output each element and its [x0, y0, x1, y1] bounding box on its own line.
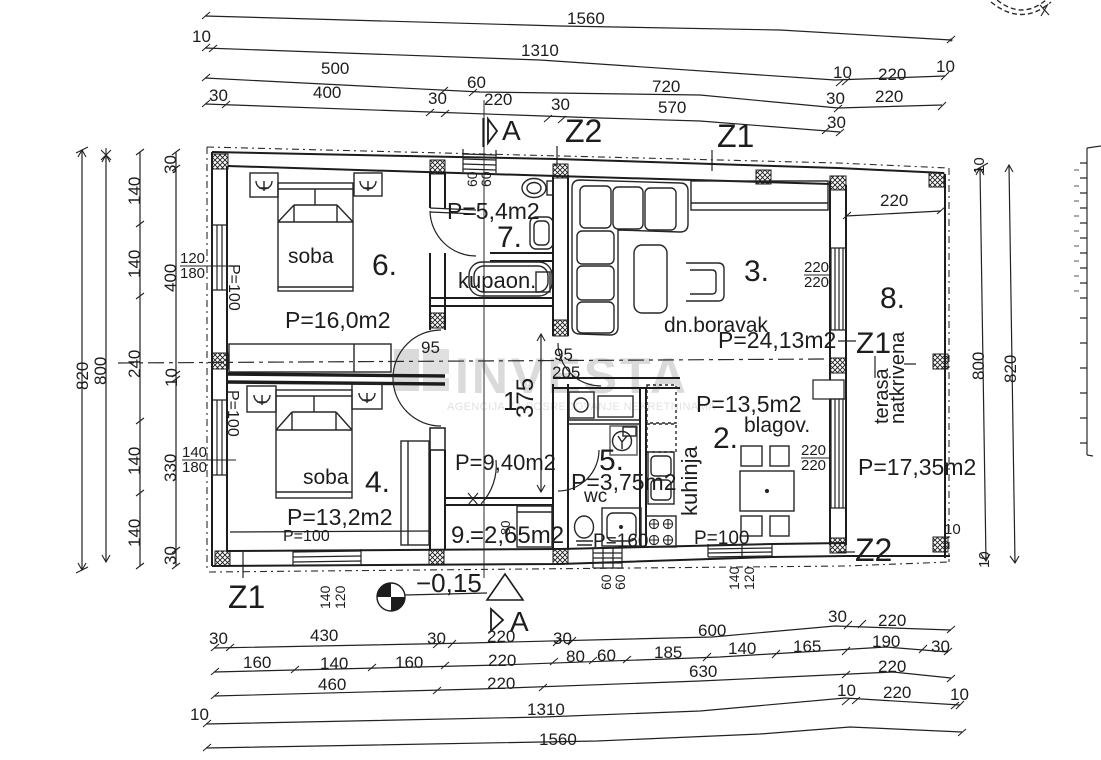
- hatch column right wall at window: [830, 358, 846, 373]
- svg-text:185: 185: [654, 643, 682, 662]
- svg-text:220: 220: [880, 191, 908, 210]
- svg-text:820: 820: [73, 362, 92, 390]
- svg-text:30: 30: [931, 637, 950, 656]
- svg-text:630: 630: [689, 662, 717, 681]
- door jamb block: [430, 428, 445, 450]
- svg-text:30: 30: [161, 546, 180, 565]
- kitchen counter mid: [647, 424, 676, 452]
- outer wall bottom: [212, 556, 846, 566]
- left dimension line 820: [73, 147, 92, 573]
- svg-text:460: 460: [318, 675, 346, 694]
- soba4 window sill line: [230, 531, 430, 532]
- soba6 nightstand left: [250, 173, 278, 197]
- outer wall left: [211, 152, 213, 566]
- marker Z1 right (terrace): [838, 327, 916, 378]
- wc toilet: [575, 516, 594, 545]
- hatch column hall wall mid: [430, 313, 445, 328]
- top dimension chain row 4 (30 400 30 220 30 570 30): [202, 83, 846, 136]
- svg-text:205: 205: [552, 363, 580, 382]
- svg-text:30: 30: [427, 629, 446, 648]
- left dimension line 800: [91, 148, 111, 562]
- entry steps: [463, 149, 496, 173]
- svg-text:soba: soba: [303, 466, 349, 489]
- svg-text:A: A: [502, 115, 521, 146]
- svg-text:P=17,35m2: P=17,35m2: [858, 454, 976, 480]
- svg-text:P=9,40m2: P=9,40m2: [455, 450, 556, 475]
- svg-text:600: 600: [698, 621, 726, 640]
- window bottom wall room9 (60/60): [593, 548, 622, 568]
- svg-text:220: 220: [804, 274, 829, 291]
- window left wall upper (120/180): [212, 225, 227, 290]
- svg-text:30: 30: [553, 629, 572, 648]
- svg-text:240: 240: [125, 350, 144, 378]
- svg-text:400: 400: [161, 264, 180, 292]
- svg-text:140: 140: [726, 566, 742, 590]
- wc boiler: [610, 426, 637, 455]
- soba4 bed: [276, 390, 352, 498]
- door arc soba6/soba4 (semicircle): [393, 330, 441, 426]
- svg-text:500: 500: [321, 59, 349, 78]
- svg-text:570: 570: [658, 98, 686, 117]
- svg-text:blagov.: blagov.: [744, 414, 810, 437]
- kitchen fridge: [647, 385, 676, 423]
- soba6 bed: [278, 183, 353, 291]
- svg-text:P=100: P=100: [224, 390, 241, 437]
- svg-text:1310: 1310: [521, 41, 559, 60]
- svg-text:220: 220: [878, 657, 906, 676]
- svg-text:160: 160: [243, 653, 271, 672]
- hatch column living wall mid: [553, 320, 568, 336]
- hatch column top wall at hall: [430, 160, 445, 174]
- svg-text:P=100: P=100: [225, 264, 242, 311]
- svg-text:180: 180: [180, 265, 205, 282]
- svg-text:P=24,13m2: P=24,13m2: [718, 327, 836, 353]
- svg-text:kupaon.: kupaon.: [458, 268, 536, 293]
- hatch column top-left corner: [212, 154, 228, 169]
- svg-text:wc: wc: [583, 486, 607, 507]
- svg-text:220: 220: [883, 683, 911, 702]
- svg-text:Z2: Z2: [855, 532, 892, 568]
- hatch column terrace top right: [929, 173, 944, 187]
- soba4 nightstand left: [247, 386, 276, 412]
- benchmark symbol: [377, 583, 487, 611]
- stamp top right (partial): [991, 0, 1051, 15]
- svg-text:720: 720: [652, 77, 680, 96]
- svg-text:80: 80: [498, 521, 513, 535]
- svg-text:140: 140: [728, 639, 756, 658]
- svg-text:30: 30: [161, 155, 180, 174]
- living armchair: [686, 263, 724, 301]
- window right wall living (220/220): [830, 248, 846, 330]
- svg-text:60: 60: [597, 646, 616, 665]
- svg-text:10: 10: [944, 521, 961, 538]
- hatch column top wall mid living: [756, 170, 771, 184]
- window bottom wall soba4 (140/120): [293, 549, 361, 566]
- svg-text:P=100: P=100: [283, 528, 330, 545]
- svg-text:30: 30: [209, 86, 228, 105]
- svg-text:120: 120: [332, 585, 348, 609]
- terrace right wall: [944, 174, 946, 558]
- svg-text:2.: 2.: [713, 422, 738, 455]
- kitchen sink: [648, 452, 674, 504]
- living sofa L-shape: [572, 180, 688, 335]
- svg-text:140: 140: [125, 250, 144, 278]
- svg-text:220: 220: [484, 90, 512, 109]
- svg-text:1560: 1560: [539, 730, 577, 749]
- window left wall lower (140/180): [212, 400, 227, 475]
- svg-text:220: 220: [878, 65, 906, 84]
- svg-text:120: 120: [741, 566, 757, 590]
- soba4 nightstand right: [352, 384, 382, 409]
- svg-text:220: 220: [878, 611, 906, 630]
- svg-text:10: 10: [971, 157, 988, 174]
- section marker A top: [484, 115, 522, 147]
- svg-text:10: 10: [837, 681, 856, 700]
- soba4 wardrobe: [401, 441, 429, 545]
- svg-text:95: 95: [421, 338, 440, 357]
- svg-text:400: 400: [313, 83, 341, 102]
- outer wall top (terrace): [838, 168, 944, 173]
- svg-text:140: 140: [125, 447, 144, 475]
- section trace dash-dot line: [118, 359, 830, 363]
- wc shower: [602, 508, 641, 546]
- svg-text:220: 220: [487, 674, 515, 693]
- hatch column bottom-left corner: [215, 551, 230, 566]
- svg-text:140: 140: [320, 654, 348, 673]
- kitchen stove: [646, 516, 676, 547]
- svg-text:820: 820: [1001, 355, 1020, 383]
- svg-text:kuhinja: kuhinja: [677, 446, 702, 516]
- svg-text:terasa: terasa: [871, 368, 893, 424]
- svg-text:800: 800: [969, 352, 988, 380]
- room7 sink: [530, 217, 553, 249]
- svg-text:30: 30: [826, 89, 845, 108]
- door arc hall to kitchen: [558, 343, 601, 386]
- door leaf room7: [430, 208, 476, 214]
- left dimension chain (30 400 10 330 30): [161, 149, 181, 569]
- svg-text:=2,65m2: =2,65m2: [470, 522, 564, 549]
- svg-text:220: 220: [875, 87, 903, 106]
- svg-text:430: 430: [310, 626, 338, 645]
- svg-text:10: 10: [936, 57, 955, 76]
- wall hall / room9: [445, 498, 553, 505]
- svg-text:P=16,0m2: P=16,0m2: [285, 307, 391, 333]
- top dimension chain row 3 (500 60 720 / 30 220): [202, 59, 946, 112]
- svg-text:1560: 1560: [567, 9, 605, 28]
- svg-text:Z2: Z2: [565, 113, 602, 149]
- bottom dimension chain row 5 (1560): [203, 727, 966, 751]
- soba6 closet low: [229, 344, 391, 372]
- soba6 nightstand right: [354, 173, 382, 196]
- wc counter sink: [598, 396, 633, 417]
- hatch column terrace bottom right: [933, 537, 948, 552]
- svg-text:30: 30: [551, 95, 570, 114]
- svg-text:330: 330: [161, 454, 180, 482]
- svg-text:Z1: Z1: [717, 118, 754, 154]
- marker Z1 top: [712, 118, 754, 171]
- svg-text:800: 800: [91, 357, 110, 385]
- svg-text:160: 160: [395, 653, 423, 672]
- hatch column terrace right wall mid: [933, 354, 948, 369]
- svg-text:30: 30: [209, 629, 228, 648]
- wall room7 / kupaon: [490, 253, 553, 261]
- hatch column bottom wall at wc: [553, 549, 568, 564]
- top dimension chain row 2 (10 / 1310 / 10 220 10): [192, 27, 955, 86]
- svg-text:A: A: [510, 606, 529, 637]
- bottom dimension chain row 4 (10 1310 10 220 10): [190, 681, 969, 727]
- kupaon bathtub: [469, 262, 552, 296]
- wall soba6 / soba4: [227, 374, 445, 376]
- svg-text:6.: 6.: [372, 249, 397, 282]
- svg-text:30: 30: [827, 113, 846, 132]
- label window 120/180 + P=100: [180, 250, 242, 311]
- hatch column living/terrace top: [830, 176, 846, 190]
- dining chairs: [741, 446, 789, 536]
- wall hall right / living: [553, 175, 568, 550]
- svg-text:140: 140: [317, 585, 333, 609]
- svg-text:95: 95: [554, 345, 573, 364]
- door arc hall to room9: [481, 460, 496, 504]
- svg-text:4.: 4.: [365, 466, 390, 499]
- wall living room / terrace: [829, 181, 831, 545]
- label window 220/220 dining: [801, 442, 829, 474]
- svg-text:165: 165: [793, 637, 821, 656]
- marker Z2 top: [557, 113, 602, 166]
- svg-text:10: 10: [976, 551, 993, 568]
- svg-text:P=160: P=160: [593, 531, 648, 552]
- room9 closet: [517, 506, 552, 547]
- svg-text:180: 180: [182, 459, 207, 476]
- bottom dimension chain row 2 (160 140 160 220 80 60 185 140 165 190 30): [211, 632, 952, 675]
- top dimension chain row 1 (1560): [202, 9, 955, 43]
- svg-text:140: 140: [125, 177, 144, 205]
- living sideboard: [691, 181, 828, 210]
- svg-text:375: 375: [512, 378, 539, 418]
- svg-text:30: 30: [428, 89, 447, 108]
- svg-text:P=100: P=100: [694, 528, 749, 549]
- svg-text:soba: soba: [288, 245, 334, 268]
- svg-text:80: 80: [566, 647, 585, 666]
- svg-text:10: 10: [162, 368, 181, 387]
- hatch column bottom wall at hall: [429, 550, 444, 565]
- dining table: [740, 471, 794, 511]
- marker Z1 bottom left: [228, 552, 265, 615]
- svg-text:−0,15: −0,15: [416, 568, 482, 598]
- right edge ruler (adjacent drawing): [1080, 146, 1101, 456]
- window right wall dining (220/220): [813, 380, 846, 508]
- section line A-A vertical: [483, 100, 485, 578]
- svg-text:60: 60: [612, 574, 628, 590]
- bottom dimension chain row 1 (30 430 30 220 30 600 30 220): [209, 607, 955, 651]
- hatch column left wall mid: [212, 353, 228, 369]
- hatch column top wall at living: [553, 164, 568, 178]
- watermark logo: [394, 349, 449, 391]
- svg-text:190: 190: [872, 632, 900, 651]
- bottom dimension chain row 3 (460 220 630 220): [211, 657, 955, 699]
- wall kupaon bottom: [430, 298, 553, 306]
- wc counter edge: [568, 420, 640, 424]
- room7 toilet: [522, 179, 553, 198]
- wc washing machine: [569, 392, 594, 418]
- hall dim 375 line: [537, 334, 545, 492]
- living coffee table: [634, 245, 667, 313]
- svg-text:220: 220: [488, 651, 516, 670]
- svg-text:P=13,2m2: P=13,2m2: [287, 504, 393, 530]
- svg-text:10: 10: [833, 63, 852, 82]
- wall hall left (soba side): [430, 172, 445, 550]
- svg-text:7.: 7.: [497, 221, 522, 254]
- door arc wc: [558, 450, 599, 491]
- svg-text:60: 60: [478, 171, 494, 187]
- left dimension chain (140 140 240 140 140): [125, 149, 144, 569]
- marker Z2 bottom right: [838, 532, 892, 568]
- hatch column dining/terrace bottom: [830, 538, 846, 553]
- label window 220/220 living: [804, 259, 829, 291]
- svg-text:9.: 9.: [451, 522, 471, 549]
- wall wc / kitchen: [640, 388, 646, 545]
- svg-text:P=5,4m2: P=5,4m2: [447, 198, 540, 224]
- right dimension line 820: [1001, 165, 1020, 563]
- door arc room7: [430, 211, 476, 256]
- svg-text:10: 10: [950, 685, 969, 704]
- svg-text:Z1: Z1: [228, 579, 265, 615]
- right dimension line 800: [969, 157, 990, 561]
- svg-text:140: 140: [125, 519, 144, 547]
- section marker A bottom: [487, 574, 529, 637]
- svg-text:1310: 1310: [527, 700, 565, 719]
- svg-text:10: 10: [192, 27, 211, 46]
- window bottom wall dining (140/120): [708, 543, 772, 557]
- svg-text:10: 10: [190, 705, 209, 724]
- svg-text:3.: 3.: [744, 255, 769, 288]
- svg-text:8.: 8.: [880, 282, 905, 315]
- terrace inner dim 220: [843, 191, 945, 219]
- outer wall top (house): [212, 152, 838, 168]
- svg-text:30: 30: [828, 607, 847, 626]
- label window 140/180 + P=100: [182, 390, 241, 476]
- wall living / wc+kitchen: [553, 378, 680, 388]
- roof eave dash-dot outline: [207, 147, 949, 572]
- svg-text:Z1: Z1: [856, 327, 891, 360]
- svg-text:220: 220: [801, 457, 826, 474]
